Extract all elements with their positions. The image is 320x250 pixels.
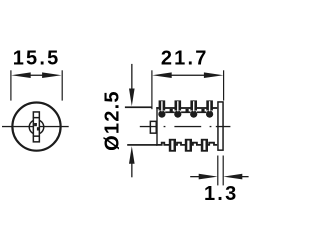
side view: bottom pin 2 <box>185 139 192 152</box>
side view: body bottom edge with chamber jogs <box>156 143 217 145</box>
side view: chamber cap line 2 <box>181 111 190 113</box>
dimension 1.3: left extension line <box>217 156 218 186</box>
front view: left ward block <box>34 123 37 126</box>
dimension 15.5: right arrowhead <box>42 72 62 78</box>
svg-text:Ø12.5: Ø12.5 <box>101 90 123 150</box>
dimension 21.7: right extension line <box>223 70 224 100</box>
dimension 1.3: left arrow shaft <box>190 176 200 177</box>
dimension 1.3: right arrowhead <box>223 174 242 180</box>
side view: cap tab 3 <box>201 109 204 112</box>
side view: cap tab 1 <box>170 109 173 112</box>
dimension 21.7: line shaft <box>170 75 206 76</box>
front view: keyway bottom divider <box>33 135 40 137</box>
svg-text:15.5: 15.5 <box>13 48 61 70</box>
front view: keyway slot <box>33 112 39 142</box>
dimension 15.5: right extension line <box>62 70 63 100</box>
front view: right ward block <box>37 127 40 130</box>
dimension 1.3: right extension line <box>223 156 224 186</box>
side view: centerline dot 1 <box>164 126 166 127</box>
dimension 15.5: left arrowhead <box>11 72 31 78</box>
dimension D12.5: top arrow shaft <box>131 64 132 90</box>
side view: bottom pin 1 <box>169 139 176 152</box>
svg-text:21.7: 21.7 <box>161 48 209 70</box>
side view: cam block at left <box>150 121 156 133</box>
dimension 1.3: left arrowhead <box>199 174 218 180</box>
front view: keyway top divider <box>33 117 40 119</box>
side view: chamber cap line 1 <box>165 111 174 113</box>
side view: centerline segment through flange <box>216 126 231 127</box>
side view: cap tab 2 <box>186 109 189 112</box>
dimension 21.7: right arrowhead <box>204 72 224 78</box>
side view: centerline segment through cam <box>140 126 158 127</box>
dimension 1.3: right arrow shaft <box>242 176 249 177</box>
dimension D12.5: bottom arrowhead <box>129 146 135 164</box>
dimension D12.5: top arrowhead <box>129 89 135 107</box>
side view: bottom pin 3 <box>201 139 208 152</box>
side view: pin tower 3 <box>190 100 197 117</box>
side view: face flange <box>218 102 223 150</box>
front view: cylinder outer circle <box>12 103 60 151</box>
side view: chamber cap line 3 <box>197 111 206 113</box>
front view: horizontal centerline <box>2 126 69 127</box>
dimension D12.5: bottom arrow shaft <box>131 162 132 177</box>
dimension 21.7: left extension line <box>151 70 152 109</box>
side view: body top edge <box>156 107 217 109</box>
dimension D12.5: bottom extension line <box>127 144 157 146</box>
svg-text:1.3: 1.3 <box>204 183 238 205</box>
side view: centerline dot 2 <box>210 126 212 127</box>
front view: plug circle <box>29 120 44 135</box>
side view: pin tower 2 <box>174 100 181 117</box>
side view: pin tower 1 <box>158 100 165 117</box>
side view: pin tower 4 <box>206 100 213 117</box>
side view: centerline long dash <box>174 126 201 127</box>
dimension D12.5: top extension line <box>125 106 152 108</box>
dimension 15.5: left extension line <box>10 70 11 100</box>
dimension 21.7: left arrowhead <box>152 72 172 78</box>
dimension 15.5: line shaft <box>28 75 45 76</box>
side view: body left edge <box>156 107 157 146</box>
